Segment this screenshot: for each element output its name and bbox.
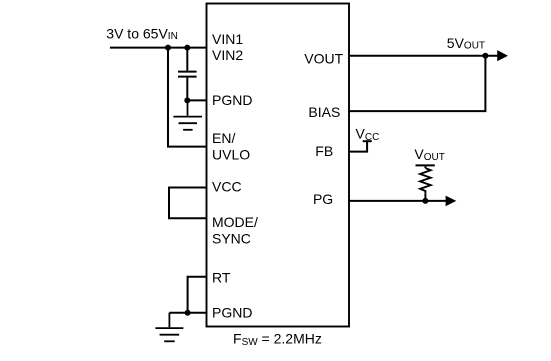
svg-text:PG: PG [313, 191, 333, 207]
svg-text:FSW = 2.2MHz: FSW = 2.2MHz [233, 330, 322, 348]
arrow PG output [446, 196, 457, 207]
wire VOUT output [349, 55, 498, 57]
wire BIAS to VOUT node [349, 56, 485, 111]
wire PGND stub to capacitor [187, 99, 206, 101]
wire FB to VCC tap [349, 142, 367, 152]
svg-text:VIN2: VIN2 [212, 47, 243, 63]
resistor R1 pull-up [420, 166, 431, 201]
svg-text:PGND: PGND [212, 92, 252, 108]
node junction input/capacitor [184, 45, 190, 51]
ground symbol G1 [173, 100, 202, 129]
power rail bar VOUT [416, 164, 435, 166]
capacitor C1 input bypass [178, 48, 197, 101]
svg-text:VCC: VCC [212, 178, 242, 194]
svg-text:VIN1: VIN1 [212, 31, 243, 47]
svg-text:VOUT: VOUT [414, 146, 444, 163]
node junction RT/PGND [185, 310, 191, 316]
svg-text:EN/UVLO: EN/UVLO [212, 130, 250, 162]
power tap bar VCC [363, 140, 372, 142]
wire PGND2 stub [169, 312, 206, 314]
node junction VOUT/BIAS [482, 53, 488, 59]
wire RT to PGND node [188, 277, 206, 313]
svg-text:FB: FB [315, 143, 333, 159]
svg-text:RT: RT [212, 269, 231, 285]
ground symbol G2 [155, 313, 183, 342]
wire input 3V-65V [110, 47, 206, 49]
svg-text:5VOUT: 5VOUT [447, 35, 485, 52]
svg-text:VCC: VCC [356, 125, 380, 143]
svg-text:3V to 65VIN: 3V to 65VIN [106, 26, 178, 43]
wire EN/UVLO from input node [168, 48, 206, 147]
svg-text:VOUT: VOUT [304, 50, 343, 66]
svg-text:PGND: PGND [212, 305, 252, 321]
arrow VOUT output [497, 50, 508, 61]
op-amp U1 IC body outline [207, 4, 350, 327]
node junction capacitor/PGND [184, 97, 190, 103]
wire VCC to MODE/SYNC loop [169, 188, 206, 219]
wire PG output [349, 200, 446, 202]
svg-text:BIAS: BIAS [308, 104, 340, 120]
node junction PG/resistor [422, 198, 428, 204]
svg-text:MODE/SYNC: MODE/SYNC [212, 214, 258, 246]
node junction input/EN [165, 45, 171, 51]
